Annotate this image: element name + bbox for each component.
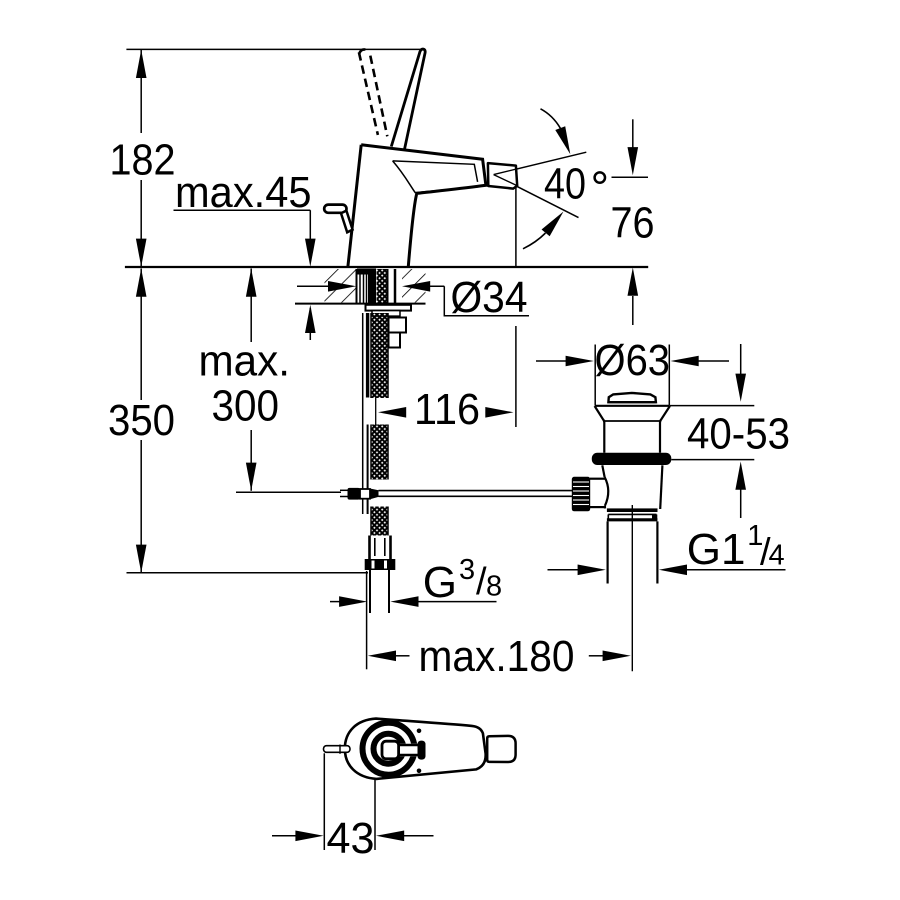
svg-text:350: 350: [108, 396, 175, 445]
svg-text:40: 40: [544, 160, 586, 209]
svg-text:max.: max.: [199, 336, 291, 385]
svg-text:300: 300: [212, 382, 280, 431]
svg-text:/: /: [476, 561, 487, 603]
svg-text:max.45: max.45: [175, 168, 312, 217]
svg-text:Ø63: Ø63: [595, 336, 671, 385]
svg-text:43: 43: [327, 814, 375, 863]
svg-text:116: 116: [414, 385, 480, 434]
svg-text:3: 3: [459, 554, 475, 586]
svg-text:4: 4: [769, 540, 785, 572]
svg-text:40-53: 40-53: [687, 410, 790, 459]
svg-text:G: G: [423, 558, 457, 607]
svg-text:8: 8: [486, 571, 502, 603]
svg-text:182: 182: [110, 136, 176, 185]
svg-text:G1: G1: [687, 525, 746, 574]
svg-text:max.180: max.180: [419, 632, 575, 681]
svg-text:/: /: [760, 532, 771, 574]
svg-text:Ø34: Ø34: [451, 273, 528, 322]
svg-text:76: 76: [611, 199, 655, 248]
